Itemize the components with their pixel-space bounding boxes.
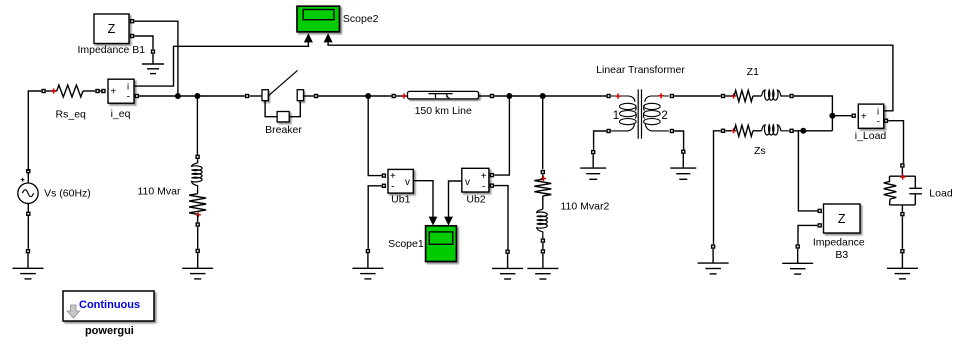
svg-text:Z: Z xyxy=(838,212,846,226)
node bus-110Mvar junction xyxy=(194,93,200,99)
wire bus i_eq to Breaker xyxy=(135,95,138,98)
node bus-B1 junction xyxy=(175,93,181,99)
resistor Rs_eq xyxy=(42,85,103,97)
scope Scope2 xyxy=(297,6,340,42)
breaker xyxy=(246,70,318,122)
impedance measurement B3 xyxy=(818,204,860,233)
svg-text:Continuous: Continuous xyxy=(79,299,140,311)
svg-text:powergui: powergui xyxy=(85,325,134,337)
ground below 110 Mvar2 xyxy=(527,250,558,279)
svg-text:Zs: Zs xyxy=(754,145,766,157)
svg-text:i_eq: i_eq xyxy=(111,108,131,120)
wire i_Load i output up and left to Scope2 xyxy=(328,42,893,111)
wire i_eq i output to Scope2 xyxy=(134,46,306,86)
AC voltage source Vs (60Hz) xyxy=(18,170,38,216)
svg-text:1: 1 xyxy=(613,110,619,122)
wire Load to ground xyxy=(901,216,903,249)
series RL branch 110 Mvar2 xyxy=(534,171,551,243)
svg-text:+: + xyxy=(861,111,867,122)
wire Ub1 v output to Scope1 xyxy=(413,181,433,218)
series RL branch Z1 xyxy=(722,90,794,102)
ground below Zs xyxy=(698,245,729,274)
wire B1 top port down to bus node xyxy=(134,21,178,96)
wire Vs top to Rs_eq xyxy=(28,91,41,171)
wire Zs output to node xyxy=(794,130,833,132)
svg-text:i_Load: i_Load xyxy=(855,130,887,142)
ground below transformer primary xyxy=(580,151,606,180)
wire bus down to Ub1 + input xyxy=(368,96,381,176)
voltage measurement Ub1 xyxy=(382,169,413,193)
svg-text:+: + xyxy=(390,171,396,182)
wire Z1 output down to i_Load node xyxy=(794,96,833,131)
svg-text:150 km Line: 150 km Line xyxy=(415,105,472,117)
svg-text:+: + xyxy=(110,87,116,98)
svg-text:Rs_eq: Rs_eq xyxy=(56,109,87,121)
ground below transformer secondary xyxy=(670,150,696,179)
svg-text:Ub1: Ub1 xyxy=(391,194,410,206)
ground below Ub1 xyxy=(352,250,383,279)
powergui block xyxy=(63,291,154,321)
wire transformer primary bottom to ground xyxy=(594,131,607,150)
scope Scope1 xyxy=(426,226,457,262)
wire bus down to 110 Mvar2 xyxy=(542,96,544,169)
svg-text:Z: Z xyxy=(108,22,116,36)
svg-text:Impedance: Impedance xyxy=(813,237,865,249)
svg-text:v: v xyxy=(405,177,410,188)
svg-text:-: - xyxy=(482,181,485,192)
wire Zs node down to B3 xyxy=(798,131,817,211)
svg-text:Impedance B1: Impedance B1 xyxy=(77,44,145,56)
current measurement i_Load xyxy=(852,104,887,128)
svg-text:Ub2: Ub2 xyxy=(466,194,485,206)
wire Ub2 - input to ground xyxy=(494,186,508,250)
svg-text:Linear Transformer: Linear Transformer xyxy=(596,64,685,76)
ground below B3 xyxy=(782,245,813,274)
wire transformer secondary bottom to ground xyxy=(674,131,683,149)
svg-text:Scope1: Scope1 xyxy=(388,238,424,250)
wire Vs bottom to ground xyxy=(27,216,29,249)
wire transformer secondary to Z1 xyxy=(674,95,721,97)
ground below Vs xyxy=(13,250,44,279)
svg-text:v: v xyxy=(465,177,470,188)
current measurement i_eq xyxy=(102,79,134,103)
wire Ub2 + input up to bus xyxy=(494,96,509,175)
distributed parameter line 150 km Line xyxy=(392,91,493,99)
svg-text:-: - xyxy=(877,116,880,127)
wire B3 bottom port to ground xyxy=(798,225,817,244)
parallel RLC load Load xyxy=(884,164,922,216)
linear transformer xyxy=(607,89,673,138)
ground below B1 xyxy=(142,50,164,74)
svg-text:110 Mvar: 110 Mvar xyxy=(138,185,181,197)
node Z1-Zs-iLoad junction xyxy=(829,113,835,119)
svg-text:Scope2: Scope2 xyxy=(343,13,379,25)
node bus-Ub2 junction xyxy=(506,93,512,99)
node bus-Ub1 junction xyxy=(365,93,371,99)
wire B1 bottom port to ground xyxy=(134,36,153,49)
ground below Load xyxy=(887,250,918,279)
svg-text:110 Mvar2: 110 Mvar2 xyxy=(560,200,609,212)
node bus-110Mvar2 junction xyxy=(540,93,546,99)
node Zs branch junction xyxy=(800,128,806,134)
svg-text:Load: Load xyxy=(929,188,953,200)
svg-text:+: + xyxy=(481,171,487,182)
svg-text:Z1: Z1 xyxy=(747,66,759,78)
wire i_Load - output down to Load xyxy=(888,121,903,164)
wire bus 150 km Line to Linear Transformer xyxy=(494,95,606,97)
wire Zs left to ground xyxy=(714,131,721,245)
wire bus Breaker to 150 km Line xyxy=(318,95,391,97)
wire 110 Mvar to ground xyxy=(197,227,199,249)
wire Ub2 v output to Scope1 xyxy=(449,181,462,218)
series RL branch Zs xyxy=(722,125,794,137)
series RL branch 110 Mvar xyxy=(189,155,206,226)
ground below Ub2 xyxy=(492,250,523,279)
svg-text:-: - xyxy=(127,92,130,103)
impedance measurement B1 xyxy=(94,14,134,44)
svg-text:-: - xyxy=(391,181,394,192)
svg-text:B3: B3 xyxy=(835,249,848,261)
svg-text:Breaker: Breaker xyxy=(265,124,302,136)
svg-text:2: 2 xyxy=(661,110,667,122)
wire Ub1 - input to ground xyxy=(368,186,381,249)
wire node to i_Load + input xyxy=(832,115,851,117)
ground below 110 Mvar xyxy=(182,249,213,279)
svg-text:Vs (60Hz): Vs (60Hz) xyxy=(44,187,91,199)
wire bus down to 110 Mvar xyxy=(196,96,198,155)
wire 110 Mvar2 to ground xyxy=(542,243,544,249)
voltage measurement Ub2 xyxy=(462,168,494,192)
